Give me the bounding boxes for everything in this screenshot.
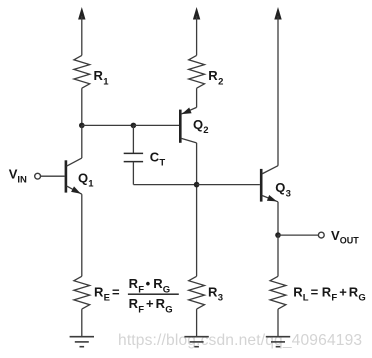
label R3 <box>208 285 223 304</box>
wire: R2 bottom to Q2 emitter <box>196 88 198 107</box>
svg-text:=: = <box>311 285 319 300</box>
transistor Q3 <box>261 166 278 202</box>
svg-text:•: • <box>146 276 151 291</box>
wire: Q3 emitter down to node D <box>277 202 279 235</box>
svg-text:1: 1 <box>103 76 109 87</box>
label CT <box>150 150 166 169</box>
label R2 <box>208 68 223 87</box>
node D junction dot <box>275 232 281 238</box>
svg-text:3: 3 <box>286 188 291 199</box>
resistor R3 <box>189 276 205 309</box>
svg-text:R: R <box>129 296 139 311</box>
wire: CT to node C <box>133 184 196 186</box>
svg-text:R: R <box>293 285 303 300</box>
svg-text:R: R <box>322 285 332 300</box>
input terminal circle <box>35 173 41 179</box>
svg-text:L: L <box>303 293 309 304</box>
svg-text:V: V <box>9 167 18 182</box>
svg-text:R: R <box>156 296 166 311</box>
wire: node A to node B <box>82 124 134 126</box>
wire: node C to Q3 base <box>197 184 260 186</box>
svg-text:F: F <box>331 293 337 304</box>
label R1 <box>94 68 110 87</box>
output terminal circle <box>318 232 324 238</box>
node B junction dot <box>131 123 137 129</box>
svg-text:+: + <box>339 285 347 300</box>
svg-text:R: R <box>208 68 218 83</box>
svg-text:R: R <box>94 285 104 300</box>
node C junction dot <box>194 182 200 188</box>
svg-text:https://blog.csdn.net/qq_40964: https://blog.csdn.net/qq_40964193 <box>118 332 362 349</box>
label VIN <box>9 167 27 186</box>
svg-text:Q: Q <box>193 117 203 132</box>
svg-text:IN: IN <box>17 175 27 186</box>
resistor R2 <box>189 55 205 88</box>
resistor RE <box>74 276 90 309</box>
svg-text:G: G <box>165 304 172 315</box>
wire: node B down to capacitor CT <box>132 125 134 153</box>
svg-text:Q: Q <box>275 180 285 195</box>
wire: CT bottom down <box>132 162 134 185</box>
svg-text:C: C <box>150 150 160 165</box>
svg-text:R: R <box>129 276 139 291</box>
node A junction dot <box>79 123 85 129</box>
wire: RE to ground <box>81 309 83 337</box>
wire: node D to VOUT terminal <box>278 234 318 236</box>
ground (middle) <box>184 337 208 347</box>
svg-text:R: R <box>208 285 218 300</box>
svg-text:Q: Q <box>78 171 88 186</box>
svg-text:R: R <box>153 276 163 291</box>
wire: R1 bottom to node A <box>81 88 83 125</box>
svg-text:R: R <box>94 68 104 83</box>
ground (left) <box>70 337 94 347</box>
transistor Q1 <box>66 158 82 194</box>
label Q2 <box>193 117 209 136</box>
svg-text:+: + <box>146 296 154 311</box>
svg-text:R: R <box>349 285 359 300</box>
svg-text:2: 2 <box>203 125 208 136</box>
supply arrow (right rail V+) <box>274 7 281 166</box>
resistor R1 <box>74 55 90 88</box>
svg-text:V: V <box>331 228 340 243</box>
wire: R3 to ground <box>196 309 198 337</box>
wire: RL to ground <box>277 309 279 337</box>
svg-text:=: = <box>112 285 120 300</box>
label Q3 <box>275 180 291 199</box>
supply arrow (middle rail V+) <box>193 7 200 55</box>
wire: node A down to Q1 collector <box>81 125 83 158</box>
wire: Q2 collector down through node C to R3 <box>196 143 198 276</box>
wire: node D down to RL <box>277 235 279 276</box>
svg-text:G: G <box>358 293 365 304</box>
label VOUT <box>331 228 359 245</box>
svg-text:OUT: OUT <box>340 235 360 245</box>
svg-text:T: T <box>159 158 165 169</box>
transistor Q2 (PNP) <box>180 107 196 142</box>
wire: node B to Q2 base <box>133 124 179 126</box>
capacitor CT <box>124 153 143 161</box>
svg-text:F: F <box>138 304 144 315</box>
label RE = RF*RG/(RF+RG) <box>94 276 179 315</box>
wire: Q1 emitter to RE <box>81 194 83 276</box>
resistor RL <box>270 276 286 309</box>
ground (right) <box>266 337 290 347</box>
svg-text:2: 2 <box>218 76 223 87</box>
label Q1 <box>78 171 94 190</box>
label RL = RF + RG <box>293 285 366 304</box>
supply arrow (left rail V+) <box>78 7 85 55</box>
svg-text:3: 3 <box>218 293 223 304</box>
wire: VIN terminal to Q1 base <box>41 175 65 177</box>
svg-text:1: 1 <box>88 179 94 190</box>
svg-text:E: E <box>104 293 110 304</box>
